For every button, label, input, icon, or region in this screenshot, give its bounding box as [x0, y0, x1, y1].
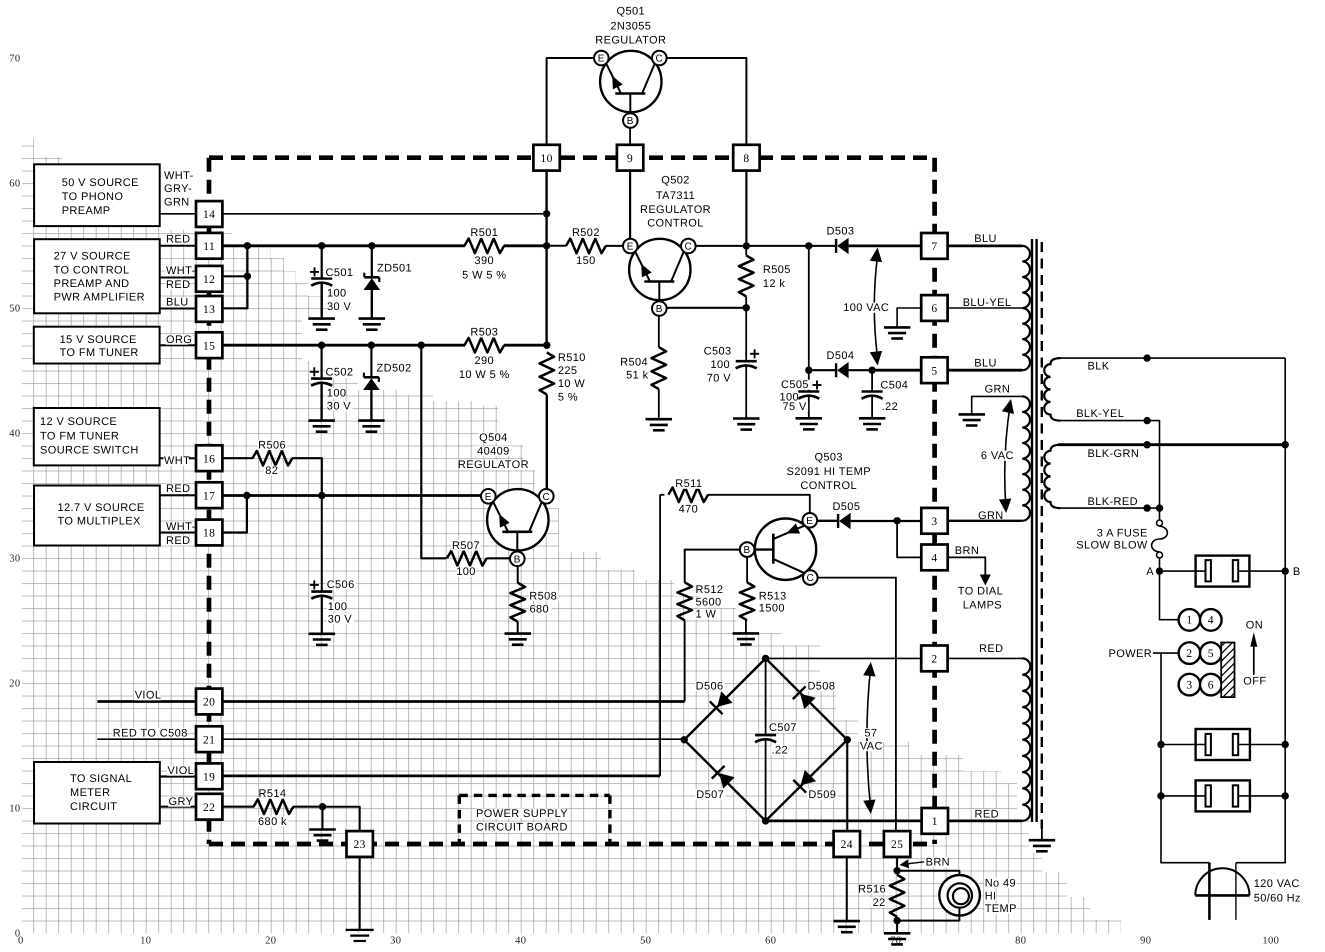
wire terminal 9 down to Q502 emitter [629, 171, 631, 239]
resistor R503 [464, 338, 504, 353]
svg-text:B: B [656, 304, 663, 315]
svg-text:ON: ON [1246, 619, 1263, 631]
svg-text:11: 11 [203, 241, 215, 253]
svg-text:SLOW BLOW: SLOW BLOW [1076, 540, 1148, 552]
wire row 20 VIOL left [97, 700, 196, 703]
svg-text:3: 3 [931, 516, 937, 528]
svg-text:R502: R502 [572, 227, 600, 239]
node Q502C/rail8 [743, 242, 750, 249]
measure arrow 100 VAC [874, 255, 877, 358]
svg-text:3: 3 [1186, 679, 1192, 691]
svg-text:30: 30 [9, 554, 20, 565]
power supply circuit board label box [458, 795, 461, 845]
label BLU row 13 [166, 297, 189, 307]
node bridge right [844, 736, 851, 743]
transformer shield dashed [1041, 242, 1043, 829]
svg-text:18: 18 [203, 528, 215, 540]
svg-text:B: B [744, 545, 751, 556]
svg-text:D506: D506 [696, 681, 724, 693]
capacitor C502 [311, 377, 332, 380]
ground C502 [308, 419, 335, 422]
wire 22 to R514 [222, 806, 254, 808]
box to signal meter circuit [34, 762, 160, 824]
wire bracket 17-18 [222, 496, 247, 533]
svg-text:4: 4 [1208, 614, 1214, 626]
wire box5 to terminal 18 [160, 532, 196, 534]
svg-text:1: 1 [932, 816, 938, 828]
node C501 [318, 242, 325, 249]
wire row 1 right [948, 820, 1022, 823]
node D504 left [805, 367, 812, 374]
terminal 8 [733, 145, 759, 171]
svg-text:50: 50 [9, 304, 20, 315]
label VIOL row 19 [167, 766, 193, 776]
transformer core [1031, 239, 1033, 822]
node BLK-GRN [1143, 441, 1150, 448]
svg-text:20: 20 [9, 679, 20, 690]
wire row4 branch [897, 521, 921, 558]
svg-text:5 W 5 %: 5 W 5 % [462, 269, 506, 281]
svg-text:50 V SOURCE: 50 V SOURCE [62, 177, 139, 189]
ground C504 [859, 417, 886, 420]
svg-text:WHT-: WHT- [166, 521, 196, 533]
node row14/rail10 [543, 210, 550, 217]
node B [1282, 567, 1289, 574]
node row12 join [244, 273, 251, 280]
svg-text:GRN: GRN [985, 384, 1011, 396]
zener diode ZD502 [364, 376, 379, 379]
node R505/C503 [743, 304, 750, 311]
diode D503 [835, 239, 837, 253]
svg-text:B: B [1293, 566, 1301, 578]
svg-text:150: 150 [576, 255, 596, 267]
wire D503 to terminal 7 [849, 244, 922, 247]
svg-text:9: 9 [627, 153, 633, 165]
svg-text:Q502: Q502 [661, 175, 690, 187]
svg-text:C: C [806, 573, 814, 584]
svg-text:VAC: VAC [860, 741, 883, 753]
svg-text:4: 4 [931, 553, 937, 565]
wire row 3 right [948, 520, 1023, 522]
svg-text:13: 13 [203, 304, 215, 316]
ground R504 [646, 418, 673, 421]
resistor R507 [447, 551, 487, 566]
plug 120 VAC [1195, 868, 1249, 895]
terminal 9 [617, 145, 643, 171]
svg-text:B: B [514, 554, 521, 565]
diode D509 [801, 770, 817, 786]
wire C504 to terminal 5 [872, 369, 921, 372]
svg-text:C502: C502 [326, 367, 354, 379]
winding secondary GRN-3 [1022, 396, 1030, 520]
svg-text:C501: C501 [326, 267, 354, 279]
svg-text:100: 100 [327, 388, 347, 400]
label WHT-RED row 12 [166, 266, 195, 276]
terminal 19 [196, 763, 222, 789]
svg-text:REGULATOR: REGULATOR [458, 459, 529, 471]
wire node to terminal 23 [323, 807, 360, 832]
wire terminal 8 down to Q502 collector row [745, 171, 747, 246]
wire row 20 VIOL right [223, 700, 685, 703]
node BLK-RED [1143, 504, 1150, 511]
wire BLK-GRN [1058, 443, 1285, 446]
transistor Q501 [600, 51, 661, 112]
node bridge bottom [762, 817, 769, 824]
svg-text:2: 2 [931, 654, 937, 666]
node C502 [318, 342, 325, 349]
node C504 [868, 367, 875, 374]
wire R507 to Q504 B [486, 557, 510, 559]
wire terminal 6 to ground [897, 308, 921, 327]
svg-text:57: 57 [864, 728, 877, 740]
wire 24 to ground [846, 857, 848, 921]
svg-text:LAMPS: LAMPS [963, 599, 1002, 611]
svg-text:6: 6 [931, 303, 937, 315]
svg-text:22: 22 [203, 802, 215, 814]
node row3/row4 [893, 517, 900, 524]
node Q502C/D503 [805, 242, 812, 249]
svg-text:PREAMP AND: PREAMP AND [54, 278, 130, 290]
bridge arm top-right [766, 658, 848, 739]
label BLK-RED [1087, 497, 1135, 507]
label BRN with arrow [904, 862, 925, 865]
svg-text:RED TO C508: RED TO C508 [113, 727, 188, 739]
wire row 14 WHT-GRY-GRN [222, 213, 546, 215]
wire row 6 right [947, 307, 1022, 309]
svg-text:VIOL: VIOL [168, 765, 195, 777]
svg-text:30 V: 30 V [327, 400, 351, 412]
wire C502 stem [321, 345, 323, 378]
wire node to ground 22 [322, 807, 324, 830]
label BLU row 7 [974, 234, 997, 244]
svg-text:PWR AMPLIFIER: PWR AMPLIFIER [54, 291, 145, 303]
svg-text:20: 20 [265, 936, 276, 947]
wire row 16 WHT [222, 457, 253, 459]
svg-text:C504: C504 [880, 379, 908, 391]
wire terminal 10 down to node rows 14/11 [545, 171, 547, 346]
wire R516 to ground [896, 921, 898, 934]
label WHT [164, 456, 189, 466]
switch actuator hatched bar [1221, 643, 1234, 698]
wire Q501 emitter to terminal 10 [547, 58, 594, 146]
svg-text:WHT: WHT [164, 455, 190, 467]
svg-text:21: 21 [203, 734, 215, 746]
node BLK-GRN rail [1282, 441, 1289, 448]
svg-text:7: 7 [931, 241, 937, 253]
terminal 18 [196, 520, 222, 546]
svg-text:TO SIGNAL: TO SIGNAL [70, 773, 132, 785]
svg-text:100: 100 [1262, 936, 1279, 947]
terminal 17 [196, 482, 222, 508]
svg-text:70: 70 [9, 54, 20, 65]
svg-text:40: 40 [9, 429, 20, 440]
wire Q503 E to D505 [817, 520, 838, 522]
svg-text:RED: RED [166, 234, 190, 246]
wire R511 left vertical to row 19 [659, 495, 661, 776]
svg-text:51 k: 51 k [626, 370, 648, 382]
wire ZD501 stem [371, 246, 373, 277]
svg-text:R504: R504 [620, 356, 648, 368]
svg-text:2N3055: 2N3055 [610, 21, 651, 33]
resistor R513 [740, 582, 755, 620]
svg-text:80: 80 [1015, 936, 1026, 947]
wire row 15 ORG [222, 344, 465, 347]
node BLK-YEL [1143, 417, 1150, 424]
wire R511 row [660, 494, 664, 496]
svg-text:C506: C506 [327, 579, 355, 591]
svg-text:6 VAC: 6 VAC [981, 450, 1014, 462]
node row11/rail10 [543, 242, 550, 249]
svg-text:D503: D503 [827, 225, 855, 237]
resistor R504 [652, 347, 667, 389]
svg-text:R514: R514 [259, 788, 287, 800]
svg-text:12.7 V SOURCE: 12.7 V SOURCE [58, 502, 145, 514]
box 27 V source to control preamp and pwr amplifier [34, 239, 160, 313]
svg-text:RED: RED [166, 279, 190, 291]
wire left rail to plug [1161, 745, 1209, 863]
node BLK [1143, 354, 1150, 361]
ground R513 [733, 632, 760, 635]
svg-text:REGULATOR: REGULATOR [595, 34, 666, 46]
svg-text:C507: C507 [769, 722, 797, 734]
svg-text:D508: D508 [807, 681, 835, 693]
svg-text:TO DIAL: TO DIAL [958, 585, 1003, 597]
svg-text:680 k: 680 k [258, 816, 287, 828]
terminal 5 [921, 357, 947, 383]
switch contact middle [1157, 741, 1164, 748]
wire box2 to terminal 13 [160, 308, 197, 310]
svg-text:25: 25 [891, 839, 903, 851]
capacitor C503 [736, 360, 757, 363]
svg-text:8: 8 [743, 153, 749, 165]
svg-text:225: 225 [558, 365, 578, 377]
terminal 3 [921, 508, 947, 534]
box 15 V source to FM tuner [34, 327, 160, 364]
label Q504 [479, 432, 509, 442]
ground row 22 [309, 828, 336, 831]
svg-text:17: 17 [203, 490, 215, 502]
ground ZD502 [358, 419, 385, 422]
svg-text:60: 60 [9, 179, 20, 190]
svg-text:TEMP: TEMP [985, 903, 1017, 915]
terminal 22 [196, 794, 222, 820]
transistor Q504 [487, 489, 548, 550]
svg-text:6: 6 [1208, 679, 1214, 691]
terminal 11 [196, 233, 222, 259]
box 12 V source to FM tuner source switch [34, 408, 160, 465]
terminal 7 [921, 233, 947, 259]
svg-text:PREAMP: PREAMP [62, 205, 111, 217]
terminal 2 [921, 646, 947, 672]
wire row 2 left [766, 657, 922, 659]
svg-text:100: 100 [456, 566, 476, 578]
label VIOL row 20 [134, 690, 160, 700]
svg-text:E: E [627, 242, 634, 253]
svg-text:GRY: GRY [169, 796, 194, 808]
svg-text:CIRCUIT: CIRCUIT [70, 801, 117, 813]
wire ZD502 stem [370, 345, 372, 377]
terminal 1 [922, 808, 948, 834]
wire Q503 B to R512 [685, 550, 740, 583]
wire Q502 B to R505 node [666, 307, 746, 309]
wire row 17 RED [222, 494, 481, 497]
wire row 1 left [766, 820, 922, 823]
label RED row 2 [979, 644, 1002, 654]
label RED row 11 [166, 234, 189, 244]
svg-text:3 A FUSE: 3 A FUSE [1097, 528, 1148, 540]
svg-text:BLU: BLU [974, 233, 997, 245]
wire D503-D504 vertical [808, 246, 810, 370]
svg-text:REGULATOR: REGULATOR [640, 204, 711, 216]
svg-text:1500: 1500 [759, 602, 785, 614]
node ZD501 [368, 242, 375, 249]
resistor R516 [890, 875, 905, 917]
terminal 10 [533, 145, 559, 171]
label GRN upper [986, 384, 1009, 394]
svg-text:30 V: 30 V [327, 301, 351, 313]
label GRY [168, 797, 191, 807]
ground ZD501 [359, 317, 386, 320]
svg-text:23: 23 [354, 839, 366, 851]
svg-text:CONTROL: CONTROL [647, 218, 704, 230]
resistor R508 [510, 583, 525, 622]
label BLK [1087, 361, 1110, 371]
terminal 14 [196, 201, 222, 227]
svg-text:50: 50 [640, 936, 651, 947]
label RED TO C508 [112, 728, 185, 738]
capacitor C507 stem [765, 658, 767, 735]
box 12.7 V source to multiplex [34, 486, 160, 546]
svg-text:24: 24 [841, 839, 853, 851]
wire row 21 to bridge [223, 738, 685, 740]
wire A to switch contact [1160, 570, 1196, 572]
box 50 V source to phono preamp [34, 164, 160, 226]
label ORG [166, 335, 189, 345]
svg-text:10: 10 [140, 936, 151, 947]
resistor R505 [739, 255, 754, 296]
capacitor C507 [755, 734, 776, 737]
svg-text:R505: R505 [763, 264, 791, 276]
svg-text:WHT-: WHT- [164, 170, 194, 182]
svg-text:BLK-GRN: BLK-GRN [1088, 448, 1140, 460]
wire switch to B [1249, 570, 1285, 572]
svg-text:CONTROL: CONTROL [800, 480, 857, 492]
svg-text:TO PHONO: TO PHONO [62, 191, 124, 203]
transistor Q503 [755, 519, 816, 580]
svg-text:50/60 Hz: 50/60 Hz [1254, 893, 1301, 905]
svg-text:C: C [542, 492, 550, 503]
label BRN row 4 [954, 546, 977, 556]
svg-text:METER: METER [70, 787, 111, 799]
wire row 21 left [97, 738, 196, 740]
svg-text:60: 60 [765, 936, 776, 947]
switch pole circles 1 4 [1179, 609, 1201, 631]
svg-text:2: 2 [1186, 648, 1192, 660]
wire row 22 GRY [160, 806, 196, 808]
label TO DIAL LAMPS [958, 586, 1002, 596]
terminal 16 [196, 445, 222, 471]
resistor R511 [668, 488, 708, 503]
svg-text:90: 90 [1140, 936, 1151, 947]
wire Q501 collector to terminal 8 [666, 58, 746, 146]
diode D504 [835, 363, 837, 377]
terminal 6 [921, 295, 947, 321]
svg-text:1: 1 [1186, 614, 1192, 626]
svg-text:100: 100 [328, 601, 348, 613]
wire right rail [1236, 358, 1285, 863]
svg-text:TA7311: TA7311 [656, 190, 695, 202]
arrow to dial lamps [980, 575, 991, 586]
svg-text:5600: 5600 [696, 596, 722, 608]
wire bridge right corner to terminal 24 [846, 740, 848, 831]
label Q503 [814, 452, 844, 462]
svg-text:SOURCE SWITCH: SOURCE SWITCH [40, 444, 139, 456]
label RED row 1 [974, 809, 997, 819]
wire box1 to terminal 14 [160, 213, 197, 215]
label RED row 17 [166, 484, 189, 494]
svg-text:100: 100 [327, 288, 347, 300]
ground C503 [733, 417, 760, 420]
wire BLK-RED [1058, 507, 1160, 509]
svg-text:TO FM TUNER: TO FM TUNER [40, 430, 119, 442]
wire C506 stem [321, 496, 323, 592]
transistor Q502 [629, 239, 690, 300]
wire row 11 RED [222, 244, 465, 247]
ground under R516 [884, 932, 911, 935]
label WHT-GRY-GRN [164, 170, 193, 180]
wire node to D504 [809, 369, 836, 371]
wire 25 to R516 node [896, 857, 898, 867]
resistor R512 [677, 582, 692, 620]
svg-text:10: 10 [9, 804, 20, 815]
svg-text:390: 390 [475, 255, 495, 267]
svg-text:0: 0 [18, 936, 24, 947]
label BLK-GRN [1087, 449, 1135, 459]
switch contact lower [1157, 792, 1164, 799]
ground C501 [308, 317, 335, 320]
node bridge left [681, 736, 688, 743]
svg-text:R513: R513 [759, 591, 787, 603]
svg-text:BRN: BRN [955, 545, 979, 557]
resistor R504 stem [658, 315, 660, 348]
wire R506 to row 17 [292, 458, 322, 495]
svg-text:ORG: ORG [166, 334, 192, 346]
wire row 19 VIOL box to terminal [160, 775, 196, 777]
svg-text:HI: HI [985, 890, 997, 902]
svg-text:E: E [806, 516, 813, 527]
capacitor C505 [798, 390, 819, 393]
wire R514 to node [293, 806, 323, 808]
wire box3 to terminal 15 [160, 344, 197, 346]
terminal 20 [196, 689, 222, 715]
svg-text:VIOL: VIOL [135, 690, 162, 702]
svg-text:22: 22 [873, 897, 886, 909]
terminal 23 [347, 831, 373, 857]
wire C501 stem [321, 246, 323, 279]
svg-text:D509: D509 [808, 789, 836, 801]
svg-text:1 W: 1 W [696, 609, 717, 621]
wire C503 stem [745, 308, 747, 361]
ground GRN winding [959, 413, 986, 416]
svg-text:BLK: BLK [1088, 360, 1110, 372]
svg-text:15: 15 [203, 340, 215, 352]
svg-text:40: 40 [515, 936, 526, 947]
svg-text:ZD502: ZD502 [377, 363, 412, 375]
diode D508 [800, 694, 816, 710]
svg-text:5: 5 [1208, 648, 1214, 660]
svg-text:19: 19 [203, 772, 215, 784]
bridge arm bottom-right [766, 740, 848, 821]
